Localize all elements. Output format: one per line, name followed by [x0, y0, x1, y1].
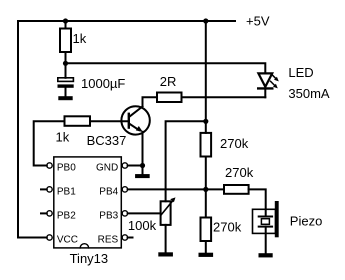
potentiometer arrowhead	[170, 197, 175, 202]
resistor 1k (base)	[65, 116, 91, 126]
svg-text:270k: 270k	[213, 220, 242, 235]
transistor base bar	[128, 114, 130, 128]
resistor 2R	[157, 93, 182, 103]
svg-text:RES: RES	[98, 235, 119, 246]
junction node A dot	[63, 61, 68, 66]
svg-text:Piezo: Piezo	[290, 214, 323, 229]
wire LED cathode down	[264, 90, 266, 98]
svg-text:PB0: PB0	[57, 163, 76, 174]
svg-text:PB2: PB2	[57, 211, 76, 222]
ground (capacitor)	[59, 97, 73, 100]
wire GND pin to emitter node	[128, 165, 143, 167]
wire PB4 to divider node	[128, 188, 224, 190]
svg-text:1k: 1k	[73, 31, 87, 46]
svg-text:1k: 1k	[56, 130, 70, 145]
wire pot bottom to ground	[165, 225, 167, 253]
junction dot top rail / +5V vertical	[203, 18, 208, 23]
capacitor 1000uF top plate	[58, 78, 74, 82]
piezo inner bottom plate	[259, 226, 272, 228]
wire base 1k net: PB0 up and to resistor	[34, 121, 65, 165]
resistor 270k (lower)	[201, 218, 212, 242]
wire 1k to base	[90, 120, 129, 122]
piezo inner top plate	[259, 216, 272, 218]
resistor 270k (upper)	[201, 133, 212, 157]
junction dot divider top	[203, 119, 208, 124]
svg-text:1000µF: 1000µF	[81, 76, 125, 91]
wire 270k lower to ground	[205, 241, 207, 253]
transistor BC337 circle	[121, 106, 149, 134]
svg-text:350mA: 350mA	[288, 86, 330, 101]
wire PB3 to pot	[128, 212, 161, 214]
LED light arrow 2	[271, 81, 276, 86]
pin circle PB3	[122, 211, 127, 216]
pin circle PB1	[47, 187, 52, 192]
svg-text:PB4: PB4	[99, 187, 118, 198]
piezo right bar	[275, 201, 278, 237]
ground (270k lower)	[199, 253, 213, 257]
LED cathode bar	[258, 87, 272, 89]
svg-text:Tiny13: Tiny13	[70, 251, 109, 266]
stub PB1	[41, 188, 47, 190]
svg-text:VCC: VCC	[57, 235, 78, 246]
wire 1k top	[65, 21, 67, 29]
pin circle PB2	[47, 211, 52, 216]
svg-text:100k: 100k	[128, 218, 157, 233]
resistor 1k (top, from +5V)	[60, 29, 71, 53]
ground (pot)	[159, 253, 173, 257]
LED arrowhead 2	[273, 84, 278, 89]
svg-text:PB1: PB1	[57, 187, 76, 198]
pin circle PB4	[122, 187, 127, 192]
piezo outer box	[253, 209, 276, 233]
piezo inner square	[261, 219, 269, 225]
svg-text:270k: 270k	[225, 165, 254, 180]
wire +5V vertical to divider	[205, 21, 207, 133]
wire 270k upper to mid node	[205, 157, 207, 218]
pin circle PB0	[47, 163, 52, 168]
svg-text:+5V: +5V	[246, 14, 270, 29]
stub PB2	[41, 212, 47, 214]
wire 1k bottom to node A	[65, 52, 67, 63]
junction dot emitter/GND	[140, 163, 145, 168]
wire node A horizontal to LED anode	[66, 63, 266, 73]
IC notch	[80, 244, 88, 248]
svg-text:LED: LED	[288, 65, 313, 80]
svg-text:2R: 2R	[160, 74, 177, 89]
wire node A to capacitor	[65, 63, 67, 78]
IC Tiny13 box	[54, 157, 122, 248]
ground (emitter/GND pin)	[135, 174, 149, 177]
stub RES	[128, 237, 133, 239]
wire 2R to LED cathode	[182, 96, 266, 98]
pin circle RES	[122, 235, 127, 240]
wire 270k horizontal to piezo	[249, 189, 266, 216]
LED arrowhead 1	[274, 77, 279, 82]
svg-text:BC337: BC337	[87, 133, 127, 148]
junction dot divider middle	[203, 187, 208, 192]
wire piezo bottom to ground	[265, 227, 267, 254]
wire capacitor to ground	[65, 88, 67, 97]
junction dot top rail / 1k	[63, 18, 68, 23]
potentiometer arrow diagonal	[161, 200, 174, 215]
resistor 270k (horizontal)	[224, 185, 249, 194]
wire pot top from +5V node	[166, 121, 206, 201]
ground (piezo)	[259, 254, 273, 258]
svg-text:270k: 270k	[220, 136, 249, 151]
LED diode triangle	[258, 73, 272, 86]
pin circle GND	[122, 163, 127, 168]
svg-text:PB3: PB3	[99, 211, 118, 222]
transistor collector diagonal	[129, 107, 142, 117]
wire collector to 2R	[143, 97, 158, 106]
wire top +5V rail	[18, 21, 235, 238]
LED light arrow 1	[272, 74, 277, 79]
pin circle VCC	[47, 235, 52, 240]
svg-text:GND: GND	[96, 163, 118, 174]
transistor emitter arrowhead	[136, 126, 143, 132]
transistor emitter diagonal	[129, 124, 139, 131]
potentiometer 100k box	[161, 201, 171, 225]
wire emitter down to ground	[142, 132, 144, 175]
capacitor 1000uF bottom plate	[58, 85, 74, 88]
